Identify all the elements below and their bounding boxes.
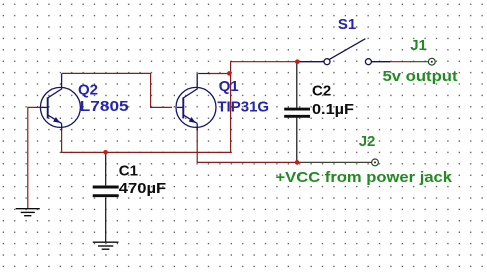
svg-text:0.1µF: 0.1µF xyxy=(312,101,354,118)
svg-text:C1: C1 xyxy=(119,162,138,179)
svg-text:470µF: 470µF xyxy=(119,180,166,197)
svg-text:+VCC from power jack: +VCC from power jack xyxy=(276,169,453,186)
svg-text:C2: C2 xyxy=(312,82,331,99)
svg-text:J1: J1 xyxy=(410,37,427,54)
svg-text:Q2: Q2 xyxy=(78,82,98,99)
svg-text:TIP31G: TIP31G xyxy=(217,99,269,116)
svg-text:L7805: L7805 xyxy=(80,98,129,115)
svg-text:J2: J2 xyxy=(359,133,376,150)
svg-text:5v output: 5v output xyxy=(383,68,458,85)
svg-text:S1: S1 xyxy=(338,16,356,33)
svg-text:Q1: Q1 xyxy=(219,78,239,95)
